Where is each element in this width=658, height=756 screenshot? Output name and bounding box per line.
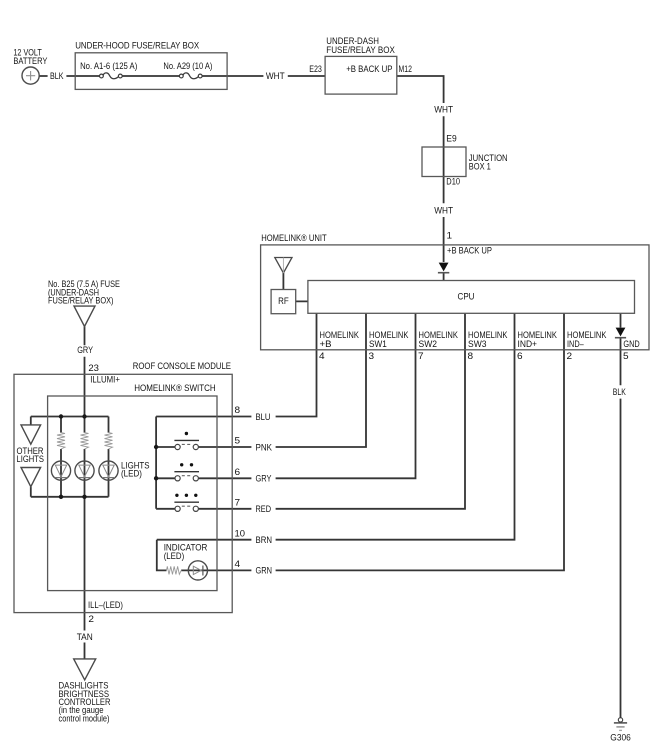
svg-text:control module): control module)	[59, 713, 110, 724]
svg-text:TAN: TAN	[77, 632, 93, 643]
svg-text:6: 6	[235, 467, 241, 478]
svg-text:4: 4	[235, 559, 241, 570]
svg-text:M12: M12	[399, 64, 412, 75]
svg-text:E9: E9	[446, 133, 456, 144]
svg-text:FUSE/RELAY BOX): FUSE/RELAY BOX)	[48, 296, 114, 307]
svg-text:+B BACK UP: +B BACK UP	[447, 245, 492, 256]
svg-text:BLK: BLK	[50, 71, 64, 82]
svg-text:23: 23	[88, 363, 99, 374]
svg-text:GRY: GRY	[77, 345, 93, 356]
svg-text:SW1: SW1	[369, 339, 387, 350]
svg-text:FUSE/RELAY BOX: FUSE/RELAY BOX	[326, 45, 395, 56]
svg-text:IND+: IND+	[518, 339, 538, 350]
svg-text:CPU: CPU	[458, 292, 475, 303]
svg-text:D10: D10	[446, 177, 460, 188]
svg-text:RF: RF	[278, 296, 289, 307]
svg-text:IND–: IND–	[567, 339, 584, 350]
svg-text:WHT: WHT	[434, 105, 453, 116]
svg-text:E23: E23	[309, 64, 322, 75]
svg-text:No. A29 (10 A): No. A29 (10 A)	[163, 61, 212, 72]
svg-text:10: 10	[235, 528, 246, 539]
svg-text:No. A1-6 (125 A): No. A1-6 (125 A)	[80, 61, 137, 72]
svg-text:2: 2	[88, 614, 94, 625]
svg-text:7: 7	[235, 498, 241, 509]
svg-text:SW3: SW3	[468, 339, 487, 350]
svg-text:RED: RED	[256, 504, 272, 515]
svg-text:5: 5	[623, 351, 629, 362]
svg-text:+B BACK UP: +B BACK UP	[346, 64, 392, 75]
svg-text:5: 5	[235, 436, 241, 447]
svg-text:8: 8	[468, 351, 474, 362]
svg-text:GRN: GRN	[256, 566, 273, 577]
svg-text:ILLUMI+: ILLUMI+	[90, 375, 120, 386]
svg-text:BLU: BLU	[256, 412, 271, 423]
svg-text:BATTERY: BATTERY	[13, 56, 48, 67]
svg-text:G306: G306	[610, 732, 631, 743]
svg-text:(LED): (LED)	[121, 469, 142, 479]
svg-text:7: 7	[418, 351, 424, 362]
svg-text:PNK: PNK	[256, 442, 273, 453]
svg-text:8: 8	[235, 405, 241, 416]
svg-text:1: 1	[447, 230, 453, 241]
svg-text:WHT: WHT	[434, 206, 453, 217]
svg-text:SW2: SW2	[419, 339, 438, 350]
svg-text:BRN: BRN	[256, 535, 273, 546]
svg-text:HOMELINK® UNIT: HOMELINK® UNIT	[261, 233, 327, 244]
svg-text:6: 6	[517, 351, 523, 362]
svg-text:(LED): (LED)	[164, 551, 185, 562]
svg-text:4: 4	[319, 351, 325, 362]
svg-text:GND: GND	[623, 339, 639, 350]
svg-text:ROOF CONSOLE MODULE: ROOF CONSOLE MODULE	[133, 361, 231, 372]
svg-text:3: 3	[369, 351, 375, 362]
svg-text:ILL–(LED): ILL–(LED)	[88, 600, 123, 611]
svg-text:BLK: BLK	[613, 387, 626, 398]
svg-text:WHT: WHT	[266, 71, 285, 82]
svg-text:LIGHTS: LIGHTS	[17, 454, 45, 464]
svg-text:UNDER-HOOD FUSE/RELAY BOX: UNDER-HOOD FUSE/RELAY BOX	[75, 40, 200, 51]
svg-text:BOX 1: BOX 1	[469, 162, 491, 173]
svg-text:GRY: GRY	[256, 474, 273, 485]
svg-text:HOMELINK® SWITCH: HOMELINK® SWITCH	[134, 383, 216, 394]
svg-text:2: 2	[567, 351, 573, 362]
svg-text:+B: +B	[320, 339, 332, 350]
